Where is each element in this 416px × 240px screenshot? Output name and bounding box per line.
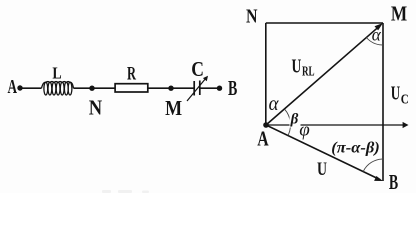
node M dot [168, 86, 173, 91]
svg-text:α: α [269, 91, 280, 115]
svg-text:(π-α-β): (π-α-β) [331, 139, 380, 156]
svg-text:R: R [127, 64, 136, 85]
wire N-M top [266, 22, 383, 24]
arc beta-phi at A [285, 109, 291, 135]
variable capacitor arrow [187, 76, 208, 101]
wire inductor to resistor [74, 87, 117, 89]
svg-text:U: U [391, 83, 400, 105]
arc (pi-a-b) at B [363, 159, 383, 172]
svg-text:α: α [372, 25, 382, 45]
svg-text:A: A [257, 127, 269, 151]
svg-text:U: U [292, 56, 302, 78]
wire N-A left vertical [265, 23, 267, 125]
resistor R [115, 84, 148, 92]
wire M-B right vertical (U_C) [382, 23, 384, 181]
wire resistor to capacitor [148, 87, 194, 89]
vector U_RL from A to M [266, 23, 383, 125]
node B dot [217, 86, 222, 91]
svg-text:M: M [165, 96, 182, 120]
svg-text:N: N [246, 6, 258, 28]
svg-text:L: L [52, 64, 61, 83]
svg-text:φ: φ [299, 120, 310, 141]
node A dot [17, 85, 22, 90]
node N dot [89, 86, 94, 91]
svg-text:C: C [191, 57, 204, 81]
horizontal axis from A [266, 122, 409, 128]
wire capacitor to B [200, 87, 217, 89]
vector U from A to B [266, 125, 383, 181]
svg-text:β: β [290, 112, 299, 128]
svg-text:B: B [228, 76, 237, 100]
svg-text:RL: RL [302, 64, 315, 79]
svg-text:U: U [317, 160, 327, 180]
wire A to inductor [23, 87, 42, 89]
label beta [290, 113, 301, 128]
capacitor C plates [194, 81, 200, 96]
svg-text:B: B [389, 170, 398, 193]
inductor L [42, 82, 74, 95]
svg-text:N: N [89, 96, 102, 120]
svg-text:C: C [401, 93, 409, 108]
faint cropped text at bottom [102, 190, 149, 193]
node A dot [263, 122, 269, 128]
svg-text:M: M [391, 2, 407, 26]
svg-text:A: A [8, 76, 18, 98]
arc alpha at M [366, 38, 383, 46]
